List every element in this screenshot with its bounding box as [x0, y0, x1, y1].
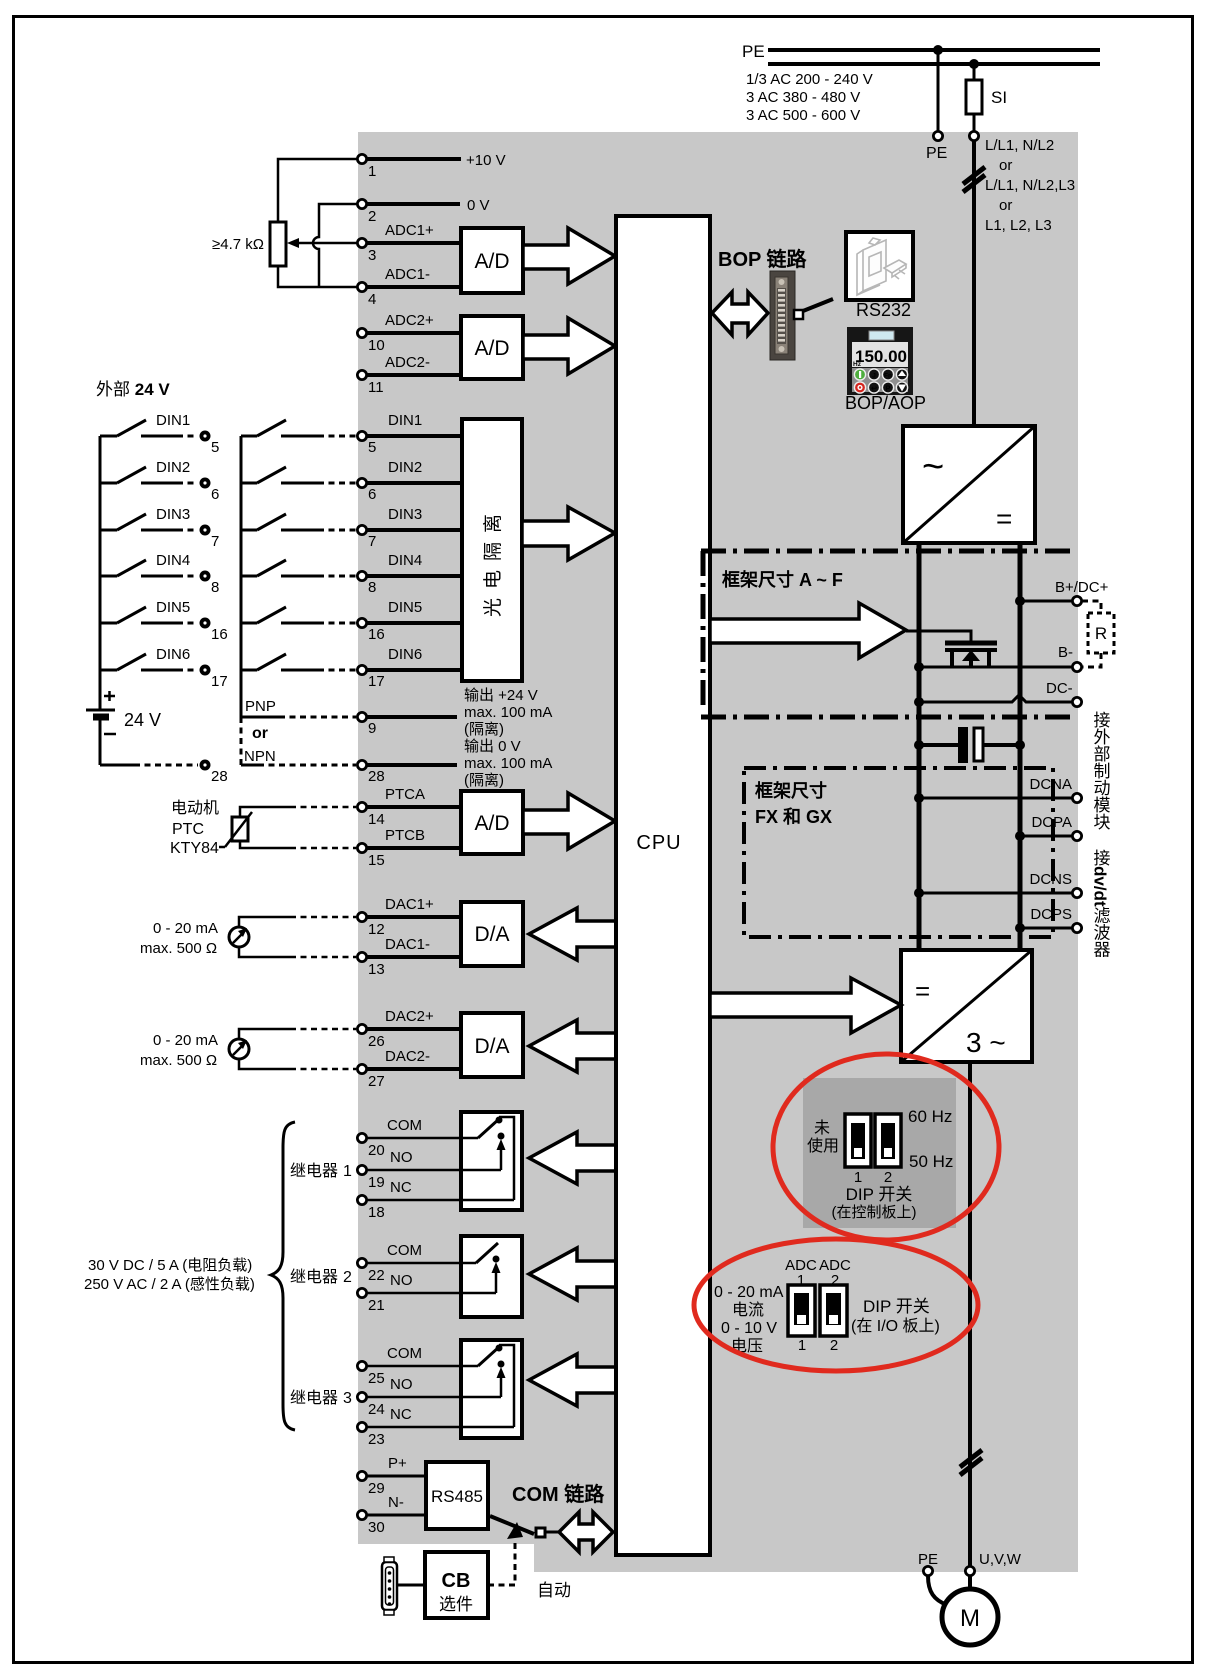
svg-text:NC: NC: [390, 1406, 412, 1423]
svg-text:自动: 自动: [537, 1581, 571, 1600]
svg-text:6: 6: [211, 486, 219, 503]
wire terminal 13 to D/A: [367, 936, 461, 957]
label RS232: [856, 300, 911, 320]
svg-text:1/3 AC 200 - 240 V: 1/3 AC 200 - 240 V: [746, 71, 873, 88]
wire PE to motor: [928, 1576, 947, 1605]
label COM link: [512, 1482, 605, 1506]
wire DIN4 to isolator: [367, 552, 462, 576]
wire 0V: [367, 197, 490, 214]
svg-text:12: 12: [368, 921, 385, 938]
svg-text:继电器: 继电器: [290, 1389, 338, 1407]
terminal 27 DAC2-: [357, 1064, 384, 1090]
label relay ratings: [84, 1257, 255, 1293]
relay 3 contact: [461, 1345, 514, 1428]
svg-text:26: 26: [368, 1033, 385, 1050]
svg-text:CPU: CPU: [636, 832, 681, 854]
svg-text:max. 100 mA: max. 100 mA: [464, 755, 552, 772]
junction DCNA: [914, 793, 924, 803]
switch DIN5 (external): [100, 599, 198, 623]
wire fuse to terminal: [973, 114, 976, 131]
fuse SI: [966, 80, 1007, 114]
svg-text:B-: B-: [1058, 644, 1073, 661]
svg-text:PNP: PNP: [245, 698, 276, 715]
svg-text:框架尺寸: 框架尺寸: [755, 780, 827, 801]
svg-text:接外部制动模块: 接外部制动模块: [1091, 711, 1111, 830]
svg-text:23: 23: [368, 1431, 385, 1448]
svg-text:DCPS: DCPS: [1030, 906, 1072, 923]
junction B- on DC bus: [914, 662, 924, 672]
svg-text:5: 5: [368, 439, 376, 456]
terminal 22 COM: [357, 1258, 384, 1284]
svg-text:30 V DC / 5 A (电阻负载): 30 V DC / 5 A (电阻负载): [88, 1257, 252, 1274]
wire DCNS: [919, 892, 1072, 895]
svg-text:20: 20: [368, 1142, 385, 1159]
wire P+: [367, 1455, 426, 1476]
terminal 16 DIN5: [357, 618, 384, 643]
wire DIN6 to isolator: [367, 646, 462, 670]
terminal 5 DIN1: [357, 431, 376, 456]
svg-text:框架尺寸 A ~ F: 框架尺寸 A ~ F: [722, 569, 843, 590]
label or: [252, 725, 268, 742]
svg-text:A/D: A/D: [474, 337, 509, 360]
switch DIN3 (internal): [241, 514, 356, 530]
wire external 24V bus (left): [99, 436, 102, 710]
inverter block: [901, 950, 1032, 1062]
svg-text:D/A: D/A: [474, 923, 509, 946]
svg-text:DIN1: DIN1: [388, 412, 422, 429]
terminal DCPA: [1031, 814, 1081, 841]
svg-text:DIN5: DIN5: [156, 599, 190, 616]
net PE label: [742, 42, 765, 61]
wire relay3 NO: [367, 1376, 501, 1397]
svg-text:COM 链路: COM 链路: [512, 1482, 605, 1506]
svg-text:DIN5: DIN5: [388, 599, 422, 616]
arrow CPU to relay 3: [529, 1354, 616, 1406]
svg-text:0 V: 0 V: [467, 197, 490, 214]
svg-text:NO: NO: [390, 1149, 413, 1166]
svg-text:N-: N-: [388, 1494, 404, 1511]
wire terminal 1 to potentiometer top: [278, 159, 357, 222]
label frame size FX GX: [755, 780, 832, 827]
svg-text:250 V AC / 2 A (感性负载): 250 V AC / 2 A (感性负载): [84, 1276, 255, 1293]
svg-text:光电隔离: 光电隔离: [482, 505, 504, 617]
terminal DCNA: [1029, 776, 1081, 803]
frame FX/GX box (dash-dot): [744, 768, 1053, 937]
label relay 2: [290, 1268, 352, 1286]
svg-text:RS485: RS485: [431, 1487, 483, 1506]
svg-text:max. 500 Ω: max. 500 Ω: [140, 940, 217, 957]
svg-text:13: 13: [368, 961, 385, 978]
svg-text:U,V,W: U,V,W: [979, 1551, 1022, 1568]
label input phases: [985, 137, 1075, 234]
terminal DCNS: [1029, 871, 1081, 898]
svg-text:CB: CB: [442, 1570, 471, 1592]
label NPN: [244, 748, 276, 765]
svg-text:M: M: [960, 1605, 980, 1632]
svg-text:15: 15: [368, 852, 385, 869]
svg-text:ADC2-: ADC2-: [385, 354, 430, 371]
svg-text:ADC1-: ADC1-: [385, 266, 430, 283]
svg-text:30: 30: [368, 1519, 385, 1536]
wire mains line 2: [768, 62, 1100, 66]
junction DCNS: [914, 888, 924, 898]
wire terminal 15 to A/D: [367, 827, 461, 848]
gray shaded inverter-module background: [358, 132, 1078, 1572]
svg-text:4: 4: [368, 291, 376, 308]
A/D converter 2: [461, 316, 523, 379]
junction B+ on DC bus: [1015, 596, 1025, 606]
terminal U,V,W: [965, 1551, 1021, 1576]
terminal PE: [926, 131, 947, 162]
terminal 28 (0 V): [357, 760, 384, 785]
highlight ellipse DIP 2: [694, 1239, 978, 1371]
wire DIN5 to isolator: [367, 599, 462, 623]
svg-text:DIN3: DIN3: [388, 506, 422, 523]
wire CB to auto switch (dashed): [488, 1541, 515, 1585]
label DAC2 load: [140, 1032, 218, 1069]
svg-text:PTC: PTC: [172, 821, 204, 838]
svg-text:Hz: Hz: [853, 361, 862, 368]
label BOP link: [718, 247, 808, 271]
svg-text:DCNA: DCNA: [1029, 776, 1072, 793]
wire B-: [919, 666, 1072, 669]
terminal 1 (+10 V): [357, 154, 376, 180]
svg-text:BOP/AOP: BOP/AOP: [845, 393, 926, 413]
wire terminal 12 to D/A: [367, 896, 461, 917]
terminal 12 DAC1+: [357, 912, 384, 938]
svg-text:(在 I/O 板上): (在 I/O 板上): [851, 1317, 940, 1335]
svg-text:50 Hz: 50 Hz: [909, 1152, 953, 1171]
label current selection: [714, 1284, 784, 1355]
terminal 6 (external DIN2): [200, 478, 220, 504]
labels ADC select: [785, 1257, 851, 1289]
svg-text:0 - 20 mA: 0 - 20 mA: [153, 1032, 218, 1049]
switch DIN4 (external): [100, 552, 198, 576]
svg-text:7: 7: [368, 533, 376, 550]
label relay 1: [290, 1162, 352, 1180]
svg-text:16: 16: [211, 626, 228, 643]
svg-text:DIN6: DIN6: [156, 646, 190, 663]
labels ADC switch numbers: [798, 1337, 838, 1354]
terminal 14 PTCA: [357, 802, 384, 828]
section divider 2 (dash-dot): [701, 715, 1077, 720]
svg-text:KTY84: KTY84: [170, 840, 219, 857]
svg-text:电流: 电流: [732, 1301, 764, 1319]
relay 1 contact: [461, 1117, 514, 1201]
wire DIN2 to isolator: [367, 459, 462, 483]
wire PE drop: [937, 50, 940, 131]
svg-text:NC: NC: [390, 1179, 412, 1196]
terminal 19 NO: [357, 1165, 384, 1191]
wire DAC1- loop: [239, 947, 356, 957]
svg-text:17: 17: [211, 673, 228, 690]
svg-text:3: 3: [368, 247, 376, 264]
junction DCPA: [1015, 831, 1025, 841]
svg-text:11: 11: [368, 379, 384, 396]
wire inverter output U,V,W: [968, 1062, 972, 1566]
label BOP/AOP: [845, 393, 926, 413]
terminal 7 (external DIN3): [200, 525, 220, 551]
svg-text:2: 2: [368, 208, 376, 225]
terminal 16 (external DIN5): [200, 618, 228, 644]
rectifier block: [903, 426, 1035, 543]
terminal 25 COM: [357, 1361, 384, 1387]
svg-text:DIN4: DIN4: [388, 552, 422, 569]
svg-text:or: or: [999, 197, 1012, 214]
wire B+/DC+: [1020, 600, 1072, 603]
svg-text:DAC2-: DAC2-: [385, 1048, 430, 1065]
terminal 20 COM: [357, 1133, 384, 1159]
label external 24 V: [96, 380, 170, 399]
terminal B-: [1058, 644, 1082, 672]
svg-text:DIN4: DIN4: [156, 552, 190, 569]
svg-text:DIP 开关: DIP 开关: [863, 1297, 930, 1316]
svg-text:=: =: [915, 976, 930, 1006]
wire relay3 COM: [367, 1345, 461, 1366]
CB option module: [425, 1552, 488, 1618]
label supply voltages: [746, 71, 873, 124]
svg-text:DAC1-: DAC1-: [385, 936, 430, 953]
connector D-sub (CB option): [382, 1557, 397, 1615]
svg-text:DIN1: DIN1: [156, 412, 190, 429]
wire DC- with hop: [919, 695, 1072, 702]
terminal DCPS: [1030, 906, 1081, 933]
svg-text:or: or: [252, 725, 268, 742]
svg-text:接dv/dt滤波器: 接dv/dt滤波器: [1091, 849, 1111, 958]
arrow A/D 1 to CPU: [523, 228, 615, 284]
svg-text:or: or: [999, 157, 1012, 174]
svg-text:0 - 10 V: 0 - 10 V: [721, 1320, 777, 1337]
wire relay1 COM: [367, 1117, 461, 1138]
wire brake resistor to B- (dashed): [1082, 653, 1101, 667]
wire relay3 NC: [367, 1406, 514, 1427]
wire terminal 27 to D/A: [367, 1048, 461, 1069]
svg-text:COM: COM: [387, 1242, 422, 1259]
meter DAC1 load: [229, 927, 249, 947]
labels switch numbers: [854, 1169, 892, 1186]
meter DAC2 load: [229, 1039, 249, 1059]
svg-text:外部 24 V: 外部 24 V: [96, 380, 170, 399]
wire PE bus line 1: [768, 48, 1100, 52]
svg-text:未: 未: [814, 1119, 830, 1137]
svg-text:~: ~: [922, 446, 944, 488]
cable break symbol: [963, 167, 985, 192]
A/D converter 1: [461, 228, 523, 293]
RS485 interface block: [426, 1462, 488, 1529]
wire to motor: [968, 1576, 972, 1589]
junction DC- on bus: [914, 697, 924, 707]
wire PTCA: [240, 807, 356, 817]
wire mains drop to fuse: [973, 64, 976, 80]
wire to brake resistor (dashed): [1082, 601, 1101, 613]
svg-text:10: 10: [368, 337, 385, 354]
svg-text:1: 1: [798, 1337, 806, 1354]
svg-text:18: 18: [368, 1204, 385, 1221]
switch DIN6 (internal): [241, 654, 356, 670]
svg-text:9: 9: [368, 720, 376, 737]
wire relay1 NO: [367, 1149, 501, 1170]
svg-text:PTCA: PTCA: [385, 786, 425, 803]
wire battery minus to terminal 28: [100, 717, 198, 765]
svg-text:PTCB: PTCB: [385, 827, 425, 844]
svg-text:NPN: NPN: [244, 748, 276, 765]
svg-text:A/D: A/D: [474, 250, 509, 273]
terminal 26 DAC2+: [357, 1024, 384, 1050]
terminal 29 P+: [357, 1471, 384, 1497]
svg-text:0 - 20 mA: 0 - 20 mA: [153, 920, 218, 937]
wire terminal 2 down with hop over ADC1+: [313, 204, 357, 287]
svg-text:DIN3: DIN3: [156, 506, 190, 523]
wire ADC1-: [367, 266, 461, 287]
svg-text:DC-: DC-: [1046, 680, 1073, 697]
svg-text:继电器: 继电器: [290, 1162, 338, 1180]
D/A converter 1: [461, 902, 523, 966]
svg-text:3 ~: 3 ~: [966, 1027, 1006, 1058]
junction on mains line: [969, 59, 979, 69]
connector BOP ribbon: [770, 271, 795, 360]
svg-text:max. 500 Ω: max. 500 Ω: [140, 1052, 217, 1069]
highlight ellipse DIP 1: [773, 1054, 999, 1240]
label not used: [807, 1119, 839, 1155]
switch DIN4 (internal): [241, 560, 356, 576]
terminal 21 NO: [357, 1288, 384, 1314]
svg-text:COM: COM: [387, 1345, 422, 1362]
svg-text:7: 7: [211, 533, 219, 550]
svg-text:L/L1, N/L2,L3: L/L1, N/L2,L3: [985, 177, 1075, 194]
svg-text:8: 8: [211, 579, 219, 596]
svg-text:25: 25: [368, 1370, 385, 1387]
switch DIN1 (internal): [241, 420, 356, 436]
svg-text:PE: PE: [926, 145, 947, 162]
svg-text:3: 3: [343, 1390, 352, 1407]
svg-text:P+: P+: [388, 1455, 407, 1472]
svg-text:J: J: [872, 373, 876, 380]
svg-text:16: 16: [368, 626, 385, 643]
section divider A-F (dash-dot): [701, 549, 1077, 554]
svg-text:1: 1: [343, 1163, 352, 1180]
junction capacitor left: [914, 740, 924, 750]
label DIP switch (control board): [832, 1185, 917, 1221]
DIP switch ADC2: [820, 1285, 847, 1336]
resistor R (external brake): [1088, 613, 1114, 653]
svg-text:14: 14: [368, 811, 385, 828]
wire PTCB: [240, 841, 356, 848]
svg-text:27: 27: [368, 1073, 385, 1090]
svg-text:NO: NO: [390, 1376, 413, 1393]
brace relay group: [271, 1122, 295, 1430]
relay 1 box: [461, 1112, 522, 1210]
terminal B+/DC+: [1055, 579, 1109, 606]
terminal 13 DAC1-: [357, 952, 384, 978]
terminal 11 ADC2-: [357, 370, 383, 396]
svg-text:电动机: 电动机: [171, 799, 219, 817]
svg-text:2: 2: [830, 1337, 838, 1354]
BOP/AOP operator panel: [847, 327, 913, 395]
wire NPN row to terminal 28: [241, 764, 356, 767]
arrow A/D 2 to CPU: [523, 318, 615, 374]
relay 3 box: [461, 1340, 522, 1438]
svg-text:ADC1+: ADC1+: [385, 222, 434, 239]
switch DIN1 (external): [100, 412, 198, 436]
D/A converter 2: [461, 1013, 523, 1077]
svg-text:ADC2+: ADC2+: [385, 312, 434, 329]
wire DCPS: [1020, 927, 1072, 930]
arrow CPU to inverter: [710, 978, 901, 1033]
svg-text:(在控制板上): (在控制板上): [832, 1203, 917, 1221]
switch DIN2 (internal): [241, 467, 356, 483]
wire relay1 NC: [367, 1179, 514, 1200]
svg-text:28: 28: [211, 768, 228, 785]
wire DC bus positive (right): [1018, 543, 1023, 950]
wire ADC2-: [367, 354, 461, 375]
DIP switch 2 (50/60 Hz): [875, 1114, 901, 1167]
arrow CPU to D/A 1: [529, 908, 616, 960]
RS232 adapter box: [846, 232, 913, 300]
thermistor PTC symbol: [219, 812, 252, 847]
terminal 17 (external DIN6): [200, 665, 228, 691]
arrowhead auto select: [507, 1522, 523, 1539]
wire terminal 14 to A/D: [367, 786, 461, 807]
svg-text:BOP 链路: BOP 链路: [718, 247, 808, 271]
svg-text:150.00: 150.00: [855, 347, 907, 366]
terminal 15 PTCB: [357, 843, 384, 869]
svg-text:22: 22: [368, 1267, 385, 1284]
arrow COM link (bidirectional): [559, 1512, 613, 1552]
wire DAC2- loop: [239, 1059, 356, 1069]
terminal DC-: [1046, 680, 1082, 707]
wire ADC2+: [367, 312, 461, 333]
terminal 24 NO: [357, 1392, 384, 1418]
terminal 9: [357, 712, 376, 737]
label frame size A-F: [722, 569, 843, 590]
svg-text:29: 29: [368, 1480, 385, 1497]
svg-text:R: R: [1095, 624, 1107, 643]
svg-text:DIN2: DIN2: [156, 459, 190, 476]
svg-text:60 Hz: 60 Hz: [908, 1107, 952, 1126]
svg-text:24 V: 24 V: [124, 710, 161, 730]
svg-text:2: 2: [343, 1269, 352, 1286]
terminal 8 DIN4: [357, 571, 376, 596]
terminal 8 (external DIN4): [200, 571, 220, 597]
switch DIN6 (external): [100, 646, 198, 670]
wire connector to CB: [397, 1584, 425, 1587]
switch COM link select: [490, 1516, 534, 1534]
svg-text:max. 100 mA: max. 100 mA: [464, 704, 552, 721]
optocoupler isolation block: [462, 419, 522, 681]
svg-text:19: 19: [368, 1174, 385, 1191]
svg-text:DIN2: DIN2: [388, 459, 422, 476]
wire N-: [367, 1494, 426, 1515]
DIP switch panel (control board): [803, 1078, 956, 1228]
wire tap to RS232: [803, 299, 833, 311]
svg-text:L1, L2, L3: L1, L2, L3: [985, 217, 1052, 234]
svg-text:1: 1: [368, 163, 376, 180]
transistor brake chopper (IGBT): [945, 643, 997, 667]
svg-text:6: 6: [368, 486, 376, 503]
terminal 4 ADC1-: [357, 282, 376, 308]
wire DCNA: [919, 797, 1072, 800]
svg-text:+10 V: +10 V: [466, 152, 506, 169]
CPU block: [616, 216, 710, 1555]
label DIP switch (I/O board): [851, 1297, 940, 1335]
label connect external braking module (vertical): [1091, 711, 1111, 830]
svg-text:≥4.7 kΩ: ≥4.7 kΩ: [212, 236, 264, 253]
svg-text:D/A: D/A: [474, 1035, 509, 1058]
svg-text:B+/DC+: B+/DC+: [1055, 579, 1109, 596]
DIP switch 1 (50/60 Hz): [845, 1114, 871, 1167]
wire DAC2+ loop: [239, 1029, 356, 1039]
svg-text:↩: ↩: [871, 386, 877, 393]
